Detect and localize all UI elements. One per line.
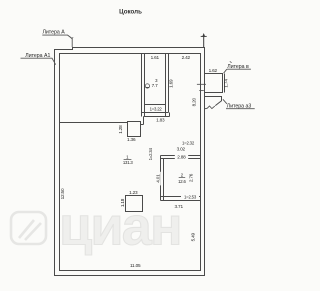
wall main horizontal: [60, 122, 128, 124]
svg-text:1.74: 1.74: [223, 79, 228, 88]
svg-text:1.23: 1.23: [129, 190, 138, 195]
watermark logo: [11, 212, 46, 244]
svg-text:1=3.22: 1=3.22: [150, 107, 163, 112]
svg-text:1.18: 1.18: [120, 198, 125, 207]
svg-text:2.76: 2.76: [188, 173, 193, 182]
svg-text:1.62: 1.62: [209, 68, 218, 73]
svg-text:7.7: 7.7: [152, 83, 159, 88]
room 1 label: [123, 154, 134, 165]
label Литера А1: [21, 53, 56, 65]
wall interior A (left wall of stair room): [142, 54, 145, 117]
room 3 (stairs) label: [145, 78, 158, 88]
svg-text:Цоколь: Цоколь: [119, 8, 142, 15]
north arrow: [201, 33, 207, 47]
svg-text:4.01: 4.01: [156, 174, 161, 183]
svg-text:1.28: 1.28: [118, 125, 123, 134]
shaft upper square: [128, 122, 141, 137]
svg-text:5.49: 5.49: [191, 232, 196, 241]
svg-text:1.69: 1.69: [169, 79, 174, 88]
svg-text:1=2.32: 1=2.32: [182, 141, 195, 146]
svg-text:1.36: 1.36: [127, 137, 136, 142]
svg-text:131.3: 131.3: [123, 160, 134, 165]
svg-text:2.42: 2.42: [182, 55, 191, 60]
shaft lower square: [126, 196, 143, 212]
wall interior B (right wall of stair room): [166, 54, 169, 117]
dim h=2.53: [181, 194, 199, 199]
wire inner boundary: [60, 54, 201, 271]
label Литера а3: [223, 99, 255, 109]
wire stair room bottom box: [142, 105, 169, 113]
room 2 walls (center room): [161, 156, 201, 201]
dim 2.88: [175, 154, 188, 159]
svg-text:12.6: 12.6: [178, 179, 186, 184]
svg-text:2.88: 2.88: [177, 154, 186, 159]
svg-text:11.05: 11.05: [130, 263, 141, 268]
wire porch below stairs: [141, 113, 170, 125]
svg-text:1.61: 1.61: [151, 55, 160, 60]
svg-text:8.20: 8.20: [192, 97, 197, 106]
svg-text:1=2.34: 1=2.34: [148, 148, 153, 161]
svg-text:3.02: 3.02: [177, 146, 186, 151]
door tick 1: [197, 83, 206, 85]
label Литера в: [224, 61, 251, 73]
room 2 label: [178, 173, 186, 184]
svg-text:1.83: 1.83: [156, 117, 165, 122]
svg-text:3.71: 3.71: [175, 204, 184, 209]
shed Litera a3 outline: [205, 97, 222, 106]
door tick 2: [199, 89, 204, 91]
a3 break zigzag: [205, 106, 215, 109]
svg-text:1=2.53: 1=2.53: [184, 194, 197, 199]
wire outer boundary: [55, 48, 205, 276]
dim 4.01: [155, 172, 161, 186]
shed Litera v outline: [205, 74, 225, 93]
label Литера А: [42, 30, 73, 47]
svg-text:12.50: 12.50: [60, 188, 65, 199]
